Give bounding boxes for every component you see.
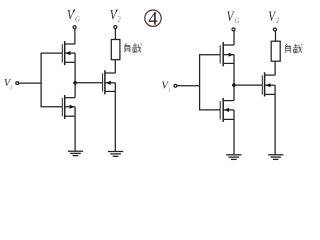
label load (fuzai) for RL1 (124, 43, 141, 52)
ground GND2 (108, 152, 123, 157)
label V'2 (110, 7, 121, 23)
transistor Q6 (right output, arrow pointing in) (262, 72, 275, 96)
label Vi (right circuit input) (162, 81, 171, 94)
svg-text:G: G (75, 16, 80, 23)
wire: Q2 source down to ground (74, 116, 76, 151)
wire: RL1 up to terminal V'2 (114, 29, 116, 40)
wire: Q1 source down to node A (74, 62, 76, 83)
wire: right gate bus connecting Q4 and Q5 gates (200, 55, 221, 110)
svg-text:G: G (234, 18, 239, 25)
terminal V'2 (114, 26, 117, 29)
ground GND1 (68, 151, 83, 155)
wire: Vi terminal to right gate bus (177, 85, 200, 87)
label V'G (left circuit gate supply) (67, 7, 80, 23)
wire: Q3 drain up to load resistor RL1 (114, 60, 116, 73)
wire: Q6 source down to ground (274, 94, 276, 154)
transistor Q3 (left output, arrow pointing in) (103, 70, 116, 94)
ground GND4 (268, 155, 283, 160)
label load (fuzai) for RL2 (285, 44, 302, 53)
wire: Q6 drain up to load resistor RL2 (274, 61, 276, 75)
wire: Q3 source down to ground (114, 91, 116, 151)
wire: gate bus connecting Q1 and Q2 gates (41, 53, 62, 107)
label Vi (left circuit input) (4, 78, 13, 91)
svg-text:i: i (10, 84, 12, 91)
ground GND3 (226, 155, 241, 160)
circled number 4 badge (145, 10, 161, 30)
transistor Q4 (right top, arrow pointing out) (220, 42, 234, 66)
terminal Vi (16, 82, 19, 85)
resistor RL2 (load) (271, 41, 280, 61)
prime mark on V'2 (116, 9, 117, 12)
transistor Q2 (left bottom, arrow pointing out) (62, 95, 75, 119)
node B (output junction dot, right circuit) (232, 83, 236, 87)
label VG (right circuit gate supply) (227, 9, 240, 25)
terminal VG (232, 28, 235, 31)
transistor Q1 (left top, arrow pointing in) (62, 41, 75, 65)
svg-text:i: i (168, 87, 170, 94)
node A (output junction dot, left circuit) (73, 81, 77, 85)
svg-text:4: 4 (148, 10, 157, 30)
wire: Q4 source down to node B (233, 63, 235, 85)
transistor Q5 (right bottom, arrow pointing in) (220, 98, 234, 122)
svg-text:2: 2 (276, 18, 280, 25)
wire: VG terminal down to Q4 drain (233, 31, 235, 45)
resistor RL1 (load) (111, 40, 120, 60)
wire: node A to Q3 gate (75, 82, 103, 84)
wire: node A down to Q2 drain (74, 83, 76, 98)
svg-text:2: 2 (117, 17, 121, 24)
wire: V'G terminal down to Q1 drain (74, 29, 76, 44)
wire: Vi terminal to gate bus (19, 82, 41, 84)
terminal V2 (273, 28, 276, 31)
wire: Q5 source down to ground (233, 119, 235, 154)
wire: RL2 up to terminal V2 (275, 31, 277, 41)
wire: node B to Q6 gate (234, 84, 262, 86)
label V2 (268, 9, 280, 25)
terminal Vi right (174, 84, 177, 87)
terminal V'G (73, 26, 76, 29)
wire: node B down to Q5 drain (233, 85, 235, 101)
prime mark on V'G (74, 9, 75, 12)
